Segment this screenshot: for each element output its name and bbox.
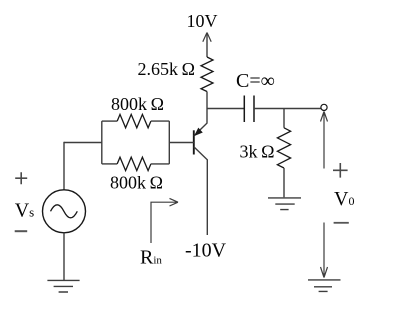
wire capacitor to output terminal	[254, 108, 321, 110]
parallel resistor box left vertical wire	[101, 121, 103, 164]
wire collector node to capacitor	[207, 108, 244, 110]
wire resistor bottom to collector node	[206, 92, 208, 109]
source Vs circle	[43, 190, 86, 233]
resistor 2.65k ohm (zigzag)	[201, 57, 213, 92]
svg-text:3k Ω: 3k Ω	[240, 142, 275, 162]
wire source to box	[64, 142, 102, 144]
source sine wave	[51, 205, 78, 218]
svg-text:C=∞: C=∞	[236, 70, 275, 92]
minus sign of Vo	[334, 222, 349, 224]
bottom 800k branch left wire	[102, 163, 117, 165]
arrow down to ground at output	[321, 223, 328, 278]
capacitor C=infinity plates	[244, 96, 254, 123]
wire 3k resistor to ground	[283, 168, 285, 197]
plus sign of Vo	[333, 163, 348, 178]
wire source bottom	[63, 233, 65, 280]
svg-text:V0: V0	[334, 188, 354, 210]
transistor emitter arrow (filled, pointing to base)	[195, 128, 202, 135]
ground under source	[47, 280, 79, 292]
transistor base wire	[169, 142, 194, 144]
Rin arrow (elbow pointing right)	[151, 198, 178, 243]
top 800k branch right wire	[151, 120, 169, 122]
ground at bottom right	[308, 280, 341, 292]
output terminal (open circle)	[321, 104, 327, 110]
svg-text:800k Ω: 800k Ω	[110, 173, 163, 193]
svg-text:Vs: Vs	[15, 200, 35, 222]
resistor 3k ohm (zigzag)	[277, 128, 290, 168]
arrow to +10V supply	[203, 33, 211, 42]
minus sign of Vs	[15, 230, 28, 232]
arrow pointing up at output terminal	[321, 112, 328, 169]
parallel resistor box right vertical wire	[168, 121, 170, 164]
svg-text:-10V: -10V	[185, 240, 227, 262]
resistor 800k top (zigzag)	[117, 114, 151, 127]
ground under 3k resistor	[268, 198, 301, 210]
resistor 800k bottom (zigzag)	[117, 157, 151, 170]
svg-text:Rin: Rin	[140, 246, 162, 268]
svg-text:10V: 10V	[187, 11, 218, 31]
transistor lower lead (collector diagonal)	[194, 147, 208, 235]
svg-text:2.65k Ω: 2.65k Ω	[138, 59, 195, 79]
top 800k branch left wire	[102, 120, 117, 122]
wire source top	[63, 142, 65, 190]
plus sign of Vs	[15, 172, 27, 184]
svg-text:800k Ω: 800k Ω	[111, 94, 164, 114]
transistor upper lead (emitter diagonal)	[194, 109, 207, 137]
node junction at 3k resistor top	[283, 109, 285, 128]
transistor Q1 base bar	[193, 130, 195, 154]
wire arrow stem to resistor	[206, 33, 208, 57]
bottom 800k branch right wire	[151, 163, 169, 165]
